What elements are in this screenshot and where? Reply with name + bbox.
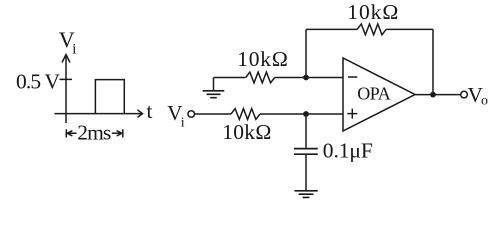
- wire: minus input line left segment: [214, 77, 246, 79]
- resistor R1 10kΩ (inverting input): [246, 72, 275, 83]
- node: terminal Vi circle: [188, 111, 195, 118]
- node: y-axis arrowhead: [62, 55, 70, 63]
- wire: minus input line right segment: [275, 77, 343, 79]
- node: 2ms dimension left arrow: [67, 131, 76, 136]
- wire: input pulse waveform: [95, 80, 124, 114]
- svg-text:t: t: [147, 99, 153, 123]
- node: 2ms dimension left bar: [65, 129, 67, 137]
- wire: capacitor bottom stem: [305, 155, 307, 190]
- node: op-amp plus sign: [347, 109, 357, 119]
- svg-text:2ms: 2ms: [77, 120, 111, 144]
- capacitor C1 0.1uF: [294, 148, 318, 150]
- node: terminal Vo circle: [461, 91, 468, 98]
- node A: junction on inverting input: [303, 75, 309, 81]
- node: Vo label: [468, 83, 488, 109]
- wire: feedback top right segment: [386, 28, 433, 30]
- node: op-amp minus sign: [348, 76, 357, 78]
- svg-text:OPA: OPA: [357, 84, 391, 104]
- resistor R3 10kΩ (non-inverting input): [231, 109, 260, 120]
- wire: capacitor top stem: [305, 114, 307, 148]
- resistor R2 10kΩ (feedback): [357, 24, 386, 35]
- wire: 0.5V tick mark: [60, 78, 73, 80]
- node: output junction: [430, 92, 436, 98]
- wire: plus input line right segment: [260, 113, 343, 115]
- wire: feedback top left segment: [306, 28, 357, 30]
- svg-text:i: i: [181, 116, 185, 131]
- wire: plus input line left segment: [195, 113, 232, 115]
- node: Vi input label: [167, 101, 185, 131]
- svg-text:0.1μF: 0.1μF: [323, 139, 373, 163]
- svg-text:10kΩ: 10kΩ: [222, 120, 271, 144]
- node: x-axis arrowhead: [138, 110, 143, 118]
- node B: junction on non-inverting input: [303, 111, 309, 117]
- ground G2 (below capacitor): [295, 191, 318, 198]
- wire: output: [415, 94, 461, 96]
- node: 2ms dimension right arrow: [112, 131, 122, 136]
- svg-text:10kΩ: 10kΩ: [347, 0, 398, 24]
- wire: feedback left vertical: [305, 29, 307, 77]
- ground G1 (top left): [213, 78, 215, 91]
- svg-text:o: o: [481, 94, 488, 109]
- wire: feedback right vertical: [432, 29, 434, 94]
- node: 2ms dimension right bar: [122, 129, 124, 137]
- node: waveform Vi axis label: [59, 27, 77, 58]
- op-amp U1 OPA: [343, 58, 415, 131]
- wire: waveform x-axis (t): [55, 113, 142, 115]
- svg-text:0.5 V: 0.5 V: [16, 70, 60, 94]
- svg-text:i: i: [72, 42, 76, 58]
- wire: waveform y-axis: [65, 56, 67, 123]
- svg-text:10kΩ: 10kΩ: [237, 47, 287, 71]
